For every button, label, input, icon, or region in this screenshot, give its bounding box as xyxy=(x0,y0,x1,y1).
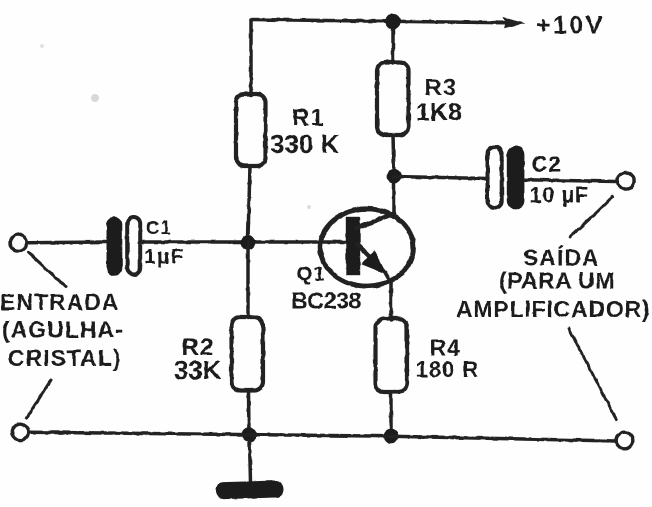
transistor Q1 emitter arrowhead xyxy=(361,250,387,275)
wire top rail +10V xyxy=(251,20,506,23)
svg-text:+10V: +10V xyxy=(536,12,605,40)
node bottom left junction xyxy=(242,427,257,442)
pointer input bottom xyxy=(27,380,52,418)
svg-text:10 µF: 10 µF xyxy=(530,183,589,208)
wire collector node to C2 xyxy=(394,177,488,179)
svg-text:(AGULHA-: (AGULHA- xyxy=(2,317,124,343)
node top rail junction xyxy=(385,14,400,29)
transistor Q1 circle xyxy=(320,209,413,286)
terminal bottom left xyxy=(12,424,28,440)
wire Q1 emitter to R4 xyxy=(389,283,393,320)
resistor R1 xyxy=(236,94,266,166)
wire collector node to Q1 xyxy=(392,176,396,213)
pointer input top xyxy=(29,253,67,288)
paper speck xyxy=(91,94,99,102)
input terminal xyxy=(10,234,27,251)
ground symbol xyxy=(216,480,284,499)
resistor R2 xyxy=(232,317,264,391)
svg-text:R1: R1 xyxy=(292,105,325,132)
resistor R3 xyxy=(377,62,409,135)
wire input to C1 xyxy=(27,240,107,244)
wire R3 bottom to collector node xyxy=(393,135,394,176)
wire R1 bottom to base node xyxy=(248,166,250,238)
svg-text:(PARA UM: (PARA UM xyxy=(499,268,615,294)
node collector junction xyxy=(387,169,402,184)
resistor R4 xyxy=(376,319,408,393)
wire C2 to output terminal xyxy=(525,180,616,182)
node base junction xyxy=(241,235,256,250)
transistor Q1 emitter stroke xyxy=(358,245,373,260)
paper speck xyxy=(307,205,311,209)
svg-text:1µF: 1µF xyxy=(144,245,184,269)
svg-text:CRISTAL): CRISTAL) xyxy=(8,345,122,371)
wire bottom rail xyxy=(29,432,616,441)
svg-text:BC238: BC238 xyxy=(291,288,362,314)
svg-text:C1: C1 xyxy=(146,217,172,238)
capacitor C1 xyxy=(107,217,123,276)
wire ground lead xyxy=(250,441,251,482)
pointer output bottom xyxy=(569,329,617,420)
capacitor C2 xyxy=(488,147,502,208)
wire top junction to R3 xyxy=(391,22,395,64)
node bottom right junction xyxy=(384,429,399,444)
svg-text:R3: R3 xyxy=(425,75,458,102)
svg-text:33K: 33K xyxy=(174,355,221,385)
wire R4 bottom to ground rail xyxy=(389,392,393,436)
paper speck xyxy=(40,44,44,48)
svg-text:Q1: Q1 xyxy=(297,263,326,286)
wire base node down to R2 xyxy=(246,242,250,318)
svg-text:AMPLIFICADOR): AMPLIFICADOR) xyxy=(456,296,650,322)
svg-text:SAÍDA: SAÍDA xyxy=(523,244,600,271)
svg-text:C2: C2 xyxy=(532,152,562,177)
svg-text:1K8: 1K8 xyxy=(416,99,462,127)
+10V arrowhead xyxy=(503,18,526,29)
wire C1 to base of Q1 xyxy=(141,240,348,244)
wire left branch vertical (top rail to R1) xyxy=(249,20,253,96)
output terminal xyxy=(618,173,635,190)
wire R2 bottom to ground rail xyxy=(247,391,251,435)
wire emitter exit xyxy=(385,273,391,284)
transistor Q1 collector stroke xyxy=(357,214,394,229)
svg-text:330 K: 330 K xyxy=(270,129,340,159)
transistor Q1 base bar xyxy=(346,217,360,275)
terminal bottom right xyxy=(616,432,633,449)
pointer output top xyxy=(570,197,613,238)
svg-text:ENTRADA: ENTRADA xyxy=(0,289,119,315)
svg-text:180 R: 180 R xyxy=(416,357,480,382)
